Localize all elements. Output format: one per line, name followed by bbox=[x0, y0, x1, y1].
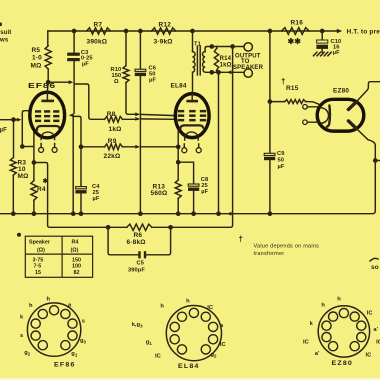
node T1 primary rail junction bbox=[190, 29, 195, 34]
resistor R4 bbox=[31, 181, 37, 201]
node speaker-return ground bbox=[216, 211, 221, 216]
tube EL84 heater bbox=[185, 132, 199, 140]
node EL84 cathode junction bbox=[176, 144, 181, 149]
svg-text:µF: µF bbox=[201, 189, 208, 195]
svg-text:EZ80: EZ80 bbox=[332, 360, 354, 367]
svg-text:g1: g1 bbox=[71, 351, 78, 358]
svg-text:R4: R4 bbox=[72, 239, 79, 245]
svg-text:h: h bbox=[321, 303, 325, 309]
svg-text:R15: R15 bbox=[286, 85, 299, 92]
svg-text:C9: C9 bbox=[277, 151, 284, 157]
svg-text:µF: µF bbox=[333, 50, 340, 56]
svg-text:k: k bbox=[20, 315, 24, 321]
resistor R12 bbox=[152, 28, 176, 34]
svg-text:s: s bbox=[20, 333, 23, 339]
svg-text:h: h bbox=[160, 304, 164, 310]
svg-text:µF: µF bbox=[82, 61, 89, 67]
terminal output top bbox=[244, 43, 252, 51]
svg-text:†: † bbox=[281, 77, 285, 86]
node R6 right junction bbox=[168, 225, 173, 230]
svg-text:3·9kΩ: 3·9kΩ bbox=[154, 38, 173, 45]
wire secondary bottom bbox=[212, 71, 244, 73]
resistor R15 bbox=[270, 101, 285, 103]
resistor R5 bbox=[47, 31, 49, 46]
node R14 top bbox=[209, 44, 214, 49]
node R15/C9 junction bbox=[268, 99, 273, 104]
svg-text:50: 50 bbox=[278, 158, 285, 164]
svg-text:IC: IC bbox=[376, 340, 380, 346]
resistor R14 bbox=[214, 49, 218, 71]
wire to EL84 cathode node bbox=[140, 146, 178, 148]
svg-text:SPEAKER: SPEAKER bbox=[233, 65, 264, 71]
wire EF86 g3 tie bbox=[22, 111, 29, 147]
svg-text:a': a' bbox=[373, 327, 378, 333]
node C6-rail junction bbox=[138, 29, 143, 34]
svg-text:H.T. to pre: H.T. to pre bbox=[347, 28, 380, 35]
resistor R6 bbox=[108, 226, 127, 228]
svg-text:k,g3: k,g3 bbox=[132, 322, 143, 329]
tube EF86 heater bbox=[41, 132, 55, 139]
tube EL84 grids bbox=[178, 110, 184, 113]
pin circles EL84 heater bbox=[184, 144, 198, 148]
tube EL84 envelope bbox=[175, 94, 209, 138]
wire secondary top bbox=[212, 46, 244, 48]
wire supply vertical bbox=[269, 31, 271, 102]
tube EL84 cathode bbox=[180, 125, 203, 130]
svg-text:EL84: EL84 bbox=[178, 363, 200, 370]
svg-text:1kΩ: 1kΩ bbox=[109, 126, 122, 133]
wire EF86 grid arrow bbox=[69, 113, 74, 117]
svg-text:R4: R4 bbox=[37, 186, 46, 193]
svg-text:g2: g2 bbox=[24, 350, 31, 357]
svg-text:g3: g3 bbox=[80, 338, 87, 345]
node feedback top junction bbox=[230, 44, 235, 49]
node C8 branch junction bbox=[176, 160, 181, 165]
svg-text:EF86: EF86 bbox=[28, 83, 56, 90]
wire EF86 anode lead bbox=[46, 82, 49, 91]
wire branch to R9/C4 node bbox=[74, 116, 81, 146]
ground chassis symbol bbox=[314, 52, 332, 56]
svg-text:3·75: 3·75 bbox=[33, 257, 44, 263]
svg-text:✱✱: ✱✱ bbox=[288, 37, 302, 46]
tube EZ80 envelope bbox=[317, 99, 364, 131]
wire EZ80 anode bottom to transformer bbox=[356, 128, 375, 145]
svg-text:R12: R12 bbox=[159, 22, 172, 29]
svg-text:a': a' bbox=[315, 351, 320, 357]
svg-text:EF86: EF86 bbox=[54, 362, 76, 369]
node C8-ground bbox=[191, 211, 196, 216]
svg-text:ws: ws bbox=[0, 38, 9, 44]
node C9-ground bbox=[268, 211, 273, 216]
svg-text:so: so bbox=[371, 264, 379, 271]
svg-text:IC: IC bbox=[220, 342, 227, 348]
capacitor C3 bbox=[73, 31, 75, 53]
tube EF86 grids bbox=[35, 110, 41, 113]
wire input bbox=[0, 119, 14, 121]
svg-text:g1: g1 bbox=[146, 340, 153, 347]
svg-text:s: s bbox=[82, 319, 85, 325]
node input junction bbox=[11, 117, 16, 122]
tube EL84 anode bbox=[186, 100, 198, 103]
resistor R13 bbox=[175, 180, 181, 199]
arrow H.T. out bbox=[337, 29, 342, 34]
wire speaker return to ground bbox=[218, 72, 220, 213]
capacitor C8 bbox=[178, 162, 193, 184]
capacitor C5 bbox=[108, 227, 171, 255]
svg-text:a: a bbox=[68, 303, 72, 309]
node speaker return junction bbox=[216, 70, 221, 75]
svg-text:µF: µF bbox=[149, 78, 156, 84]
svg-text:R5: R5 bbox=[32, 47, 41, 54]
node C3-rail junction bbox=[72, 29, 77, 34]
base diagram EF86 bbox=[27, 303, 80, 356]
svg-text:IC: IC bbox=[303, 340, 310, 346]
svg-text:(Ω): (Ω) bbox=[71, 247, 79, 253]
svg-text:6·8kΩ: 6·8kΩ bbox=[127, 239, 146, 246]
wire screen feed to EL84 bbox=[135, 113, 138, 115]
wire EZ80 anode top to transformer bbox=[356, 82, 380, 102]
bottom edge light strip bbox=[0, 378, 380, 380]
tube EF86 cathode bbox=[37, 126, 59, 131]
node R10-rail junction bbox=[124, 29, 129, 34]
svg-text:†: † bbox=[239, 235, 243, 244]
svg-text:100: 100 bbox=[72, 264, 81, 270]
base diagram EL84 bbox=[166, 306, 221, 361]
svg-text:1·0: 1·0 bbox=[32, 55, 42, 62]
svg-text:82: 82 bbox=[74, 270, 80, 276]
svg-text:MΩ: MΩ bbox=[18, 173, 29, 180]
node C10 junction bbox=[320, 29, 325, 34]
wire EF86 anode to C3 line bbox=[48, 81, 68, 83]
svg-text:µF: µF bbox=[278, 164, 285, 170]
tube EF86 anode bbox=[41, 100, 54, 103]
svg-text:T1: T1 bbox=[194, 41, 201, 47]
svg-text:1kΩ: 1kΩ bbox=[220, 62, 232, 68]
svg-text:Speaker: Speaker bbox=[29, 239, 51, 245]
node R13-ground bbox=[176, 211, 181, 216]
svg-text:(Ω): (Ω) bbox=[37, 247, 45, 253]
resistor R9 bbox=[81, 146, 105, 148]
wire EF86 cathode lead bbox=[33, 132, 35, 181]
node R3-ground bbox=[11, 211, 16, 216]
capacitor C10 bbox=[321, 31, 323, 40]
svg-text:R9: R9 bbox=[108, 138, 117, 145]
wire feedback to cathode bbox=[34, 163, 108, 228]
capacitor C4 bbox=[80, 147, 82, 187]
svg-text:µF: µF bbox=[0, 128, 7, 134]
svg-text:C5: C5 bbox=[137, 261, 144, 267]
resistor R10 bbox=[125, 31, 127, 66]
svg-text:15: 15 bbox=[35, 270, 41, 276]
node R4-ground bbox=[32, 211, 37, 216]
svg-text:R8: R8 bbox=[107, 111, 116, 118]
base diagram EZ80 bbox=[318, 306, 369, 357]
svg-text:390kΩ: 390kΩ bbox=[87, 38, 108, 45]
wire H.T. top rail bbox=[48, 30, 337, 32]
svg-text:h: h bbox=[29, 303, 33, 309]
resistor R7 bbox=[87, 28, 111, 34]
svg-text:h: h bbox=[186, 299, 190, 305]
node ground junction x73 bbox=[71, 211, 76, 216]
pin circles EF86 heater bbox=[41, 144, 55, 148]
node cathode-feedback junction bbox=[32, 160, 37, 165]
tube EF86 envelope bbox=[30, 92, 65, 138]
node supply rail junction bbox=[268, 29, 273, 34]
svg-text:EZ80: EZ80 bbox=[333, 88, 349, 95]
svg-text:7·5: 7·5 bbox=[34, 264, 42, 270]
svg-text:µF: µF bbox=[93, 196, 100, 202]
node transformer branch bbox=[373, 158, 378, 163]
capacitor C9 bbox=[269, 102, 271, 154]
terminal output bottom bbox=[244, 69, 252, 77]
svg-text:150: 150 bbox=[72, 257, 81, 263]
svg-text:R7: R7 bbox=[94, 22, 103, 29]
svg-text:EL84: EL84 bbox=[171, 83, 187, 90]
svg-text:IC: IC bbox=[207, 305, 214, 311]
svg-text:h: h bbox=[337, 297, 341, 303]
resistor R16 bbox=[281, 28, 309, 35]
svg-text:R14: R14 bbox=[220, 56, 232, 62]
transformer T1 bbox=[192, 31, 194, 52]
ground rail bbox=[0, 146, 375, 214]
svg-text:a: a bbox=[220, 323, 224, 329]
node EF86 anode junction bbox=[46, 80, 51, 85]
resistor R3 bbox=[13, 120, 15, 158]
node C6-ground junction bbox=[138, 211, 143, 216]
wire EL84 cathode lead bbox=[177, 131, 179, 180]
tube EZ80 anode plates bbox=[348, 102, 356, 110]
capacitor C6 bbox=[139, 31, 141, 69]
tube EZ80 heater arc bbox=[321, 108, 329, 123]
node R14 bottom bbox=[209, 70, 214, 75]
svg-text:22kΩ: 22kΩ bbox=[104, 153, 121, 160]
svg-text:IC: IC bbox=[366, 353, 373, 359]
resistor R8 bbox=[105, 116, 123, 122]
svg-text:transformer: transformer bbox=[254, 251, 285, 257]
node C4-ground bbox=[79, 211, 84, 216]
pin circles EZ80 heater bbox=[303, 105, 308, 110]
svg-text:Ω: Ω bbox=[114, 79, 119, 85]
tube EZ80 cathode bbox=[326, 105, 330, 128]
svg-text:h: h bbox=[47, 297, 51, 303]
svg-text:g2: g2 bbox=[211, 352, 218, 359]
svg-text:IC: IC bbox=[367, 311, 374, 317]
table speaker/R4 bbox=[25, 236, 92, 277]
svg-text:k: k bbox=[310, 321, 314, 327]
svg-text:MΩ: MΩ bbox=[31, 63, 42, 70]
svg-text:suit: suit bbox=[0, 30, 11, 36]
svg-text:IC: IC bbox=[155, 354, 162, 360]
svg-text:R16: R16 bbox=[291, 19, 304, 26]
node R9/C4 junction bbox=[79, 144, 84, 149]
node R6 left junction bbox=[106, 225, 111, 230]
wire coupling jog to R8 bbox=[75, 84, 105, 119]
svg-text:560Ω: 560Ω bbox=[151, 190, 168, 197]
svg-text:390pF: 390pF bbox=[128, 267, 145, 273]
svg-text:Value depends on mains: Value depends on mains bbox=[254, 244, 320, 250]
wire feedback from speaker bbox=[171, 47, 233, 228]
